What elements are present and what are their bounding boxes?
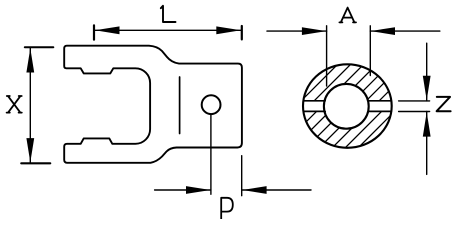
cross hole band bottom line [304,110,392,112]
dim L arrow right [216,26,241,34]
label L [161,6,176,22]
dim Z extension line top [399,100,430,102]
dim Z dimension line bottom [426,112,428,175]
dim A dimension line right [370,30,440,32]
dim L dimension line [94,29,242,31]
dim P arrow left [186,186,211,194]
label P [221,198,233,219]
dim P dimension line left [155,189,211,191]
label Z [437,97,451,111]
dim X extension tick top [25,46,54,48]
label X [7,96,22,113]
cross-section bore (inner circle) [324,84,369,129]
dim X dimension line [29,47,31,163]
dim X extension tick bottom [21,162,50,164]
dim P dimension line right [242,189,311,191]
dim X arrow top [26,48,34,72]
label A [339,8,356,23]
dim P arrow right [242,186,267,194]
dim L arrow left [95,26,120,34]
dim Z extension line bottom [399,111,430,113]
dim A extension line right [369,26,371,76]
cross hole band top line [304,100,392,102]
pin hole [202,95,221,114]
dim A arrow left [302,27,327,35]
dim P extension line left (from pin hole) [210,114,212,194]
dim A arrow right [371,27,396,35]
dim Z arrow bottom [423,112,431,137]
dim L extension tick left [93,25,95,39]
yoke hub boundary line [179,77,181,134]
dim Z dimension line top [426,43,428,101]
cross-section outer circle [303,64,392,148]
dim A dimension line left [267,30,327,32]
dim P extension line right [241,156,243,196]
dim L extension tick right [241,26,243,39]
hatching [229,55,451,160]
dim X arrow bottom [26,138,34,162]
dim A extension line left [326,26,328,86]
dim Z arrow top [423,76,431,101]
yoke outline (implement yoke side view) [64,46,242,163]
